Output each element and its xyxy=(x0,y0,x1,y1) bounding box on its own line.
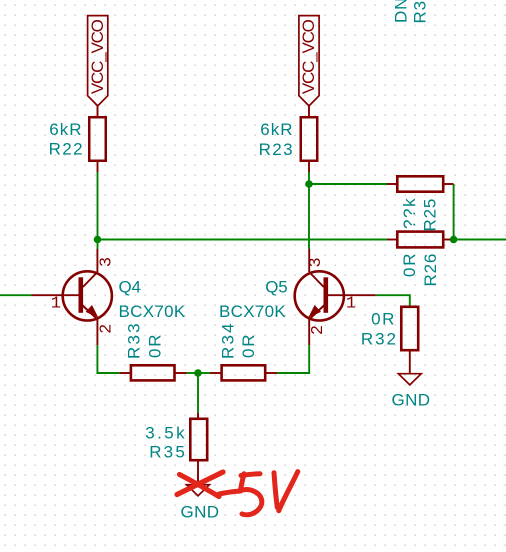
main horizontal wire xyxy=(98,239,388,241)
pin from VCC flag to R23 xyxy=(308,106,310,117)
svg-text:R35: R35 xyxy=(149,443,187,462)
svg-text:R3: R3 xyxy=(411,0,430,23)
svg-text:R26: R26 xyxy=(421,253,440,287)
svg-text:6kR: 6kR xyxy=(49,120,82,139)
svg-text:VCC_VCO: VCC_VCO xyxy=(88,19,107,94)
svg-text:6kR: 6kR xyxy=(260,120,293,139)
resistor R34 xyxy=(219,321,266,380)
svg-text:0R: 0R xyxy=(371,310,396,329)
junction C xyxy=(450,236,458,244)
svg-text:0R: 0R xyxy=(239,333,258,358)
svg-text:BCX70K: BCX70K xyxy=(219,302,286,321)
svg-text:3: 3 xyxy=(307,257,326,267)
wire Q4 emitter to R33 xyxy=(97,345,119,373)
svg-text:GND: GND xyxy=(181,502,220,521)
svg-text:1: 1 xyxy=(346,294,356,313)
wire R33 to junction D xyxy=(187,372,199,374)
svg-text:3.5k: 3.5k xyxy=(145,424,187,443)
junction D xyxy=(194,369,202,377)
wire junction B to R25 xyxy=(309,183,387,185)
resistor R3x labels (cropped at top) xyxy=(392,0,430,24)
R34 left pin xyxy=(210,372,221,374)
junction A xyxy=(94,236,102,244)
wire junction A down to Q4 collector xyxy=(97,240,99,250)
R25 right pin xyxy=(444,183,454,185)
pin below R23 xyxy=(308,162,310,173)
pin below R22 xyxy=(97,162,99,173)
svg-text:Q5: Q5 xyxy=(265,278,287,297)
svg-text:??k: ??k xyxy=(400,197,419,229)
svg-text:2: 2 xyxy=(98,324,117,334)
R34 right pin xyxy=(266,372,277,374)
wire Q5 base to R32 xyxy=(376,295,410,306)
resistor R23 xyxy=(259,117,318,161)
resistor R35 xyxy=(145,419,207,462)
resistor R33 xyxy=(125,321,175,380)
svg-text:GND: GND xyxy=(392,390,431,409)
svg-text:R32: R32 xyxy=(361,330,398,349)
R26 left pin xyxy=(387,239,397,241)
svg-text:R22: R22 xyxy=(49,140,84,159)
svg-text:DN: DN xyxy=(392,0,411,23)
svg-text:BCX70K: BCX70K xyxy=(119,302,186,321)
R35 bottom pin xyxy=(197,462,199,485)
ground symbol under R35 xyxy=(181,485,220,522)
transistor Q5 (mirrored) xyxy=(219,249,376,345)
resistor R32 xyxy=(361,307,418,350)
R26 right pin xyxy=(444,239,450,241)
ground symbol under R32 xyxy=(392,374,431,410)
wire R25 right down to junction C xyxy=(453,184,455,240)
wire R23 to junction B xyxy=(308,172,310,184)
svg-text:R34: R34 xyxy=(219,321,238,359)
wire to Q4 base (left edge) xyxy=(0,294,32,296)
transistor Q4 xyxy=(32,249,186,345)
power flag VCC_VCO #1 xyxy=(88,16,108,106)
resistor R25 xyxy=(397,176,443,231)
R35 top pin xyxy=(197,413,199,418)
pin from VCC flag to R22 xyxy=(97,106,99,117)
resistor R22 xyxy=(49,117,106,161)
svg-text:2: 2 xyxy=(309,325,328,335)
svg-text:R23: R23 xyxy=(259,140,294,159)
R33 left pin xyxy=(119,372,130,374)
wire Q5 emitter to R34 xyxy=(277,345,309,373)
svg-text:0R: 0R xyxy=(146,333,165,358)
wire junction D to R34 xyxy=(198,372,210,374)
R25 left pin xyxy=(387,183,397,185)
power flag VCC_VCO #2 xyxy=(299,16,319,106)
svg-text:1: 1 xyxy=(51,294,61,313)
red annotation: -5V handwriting xyxy=(219,472,298,515)
wire junction B down to Q5 collector xyxy=(308,184,310,249)
wire R22 to junction xyxy=(97,172,99,240)
svg-text:R33: R33 xyxy=(125,321,144,359)
svg-text:R25: R25 xyxy=(421,198,440,232)
wire junction D down to R35 xyxy=(197,373,199,413)
svg-text:Q4: Q4 xyxy=(119,278,141,297)
svg-text:VCC_VCO: VCC_VCO xyxy=(299,19,318,94)
junction B xyxy=(305,180,313,188)
svg-text:0R: 0R xyxy=(400,252,419,277)
wire junction C to right edge xyxy=(454,239,506,241)
resistor R26 xyxy=(397,232,443,287)
red annotation: X over ground xyxy=(177,472,223,497)
R33 right pin xyxy=(176,372,187,374)
R32 bottom pin xyxy=(409,352,411,374)
svg-text:3: 3 xyxy=(98,257,117,267)
